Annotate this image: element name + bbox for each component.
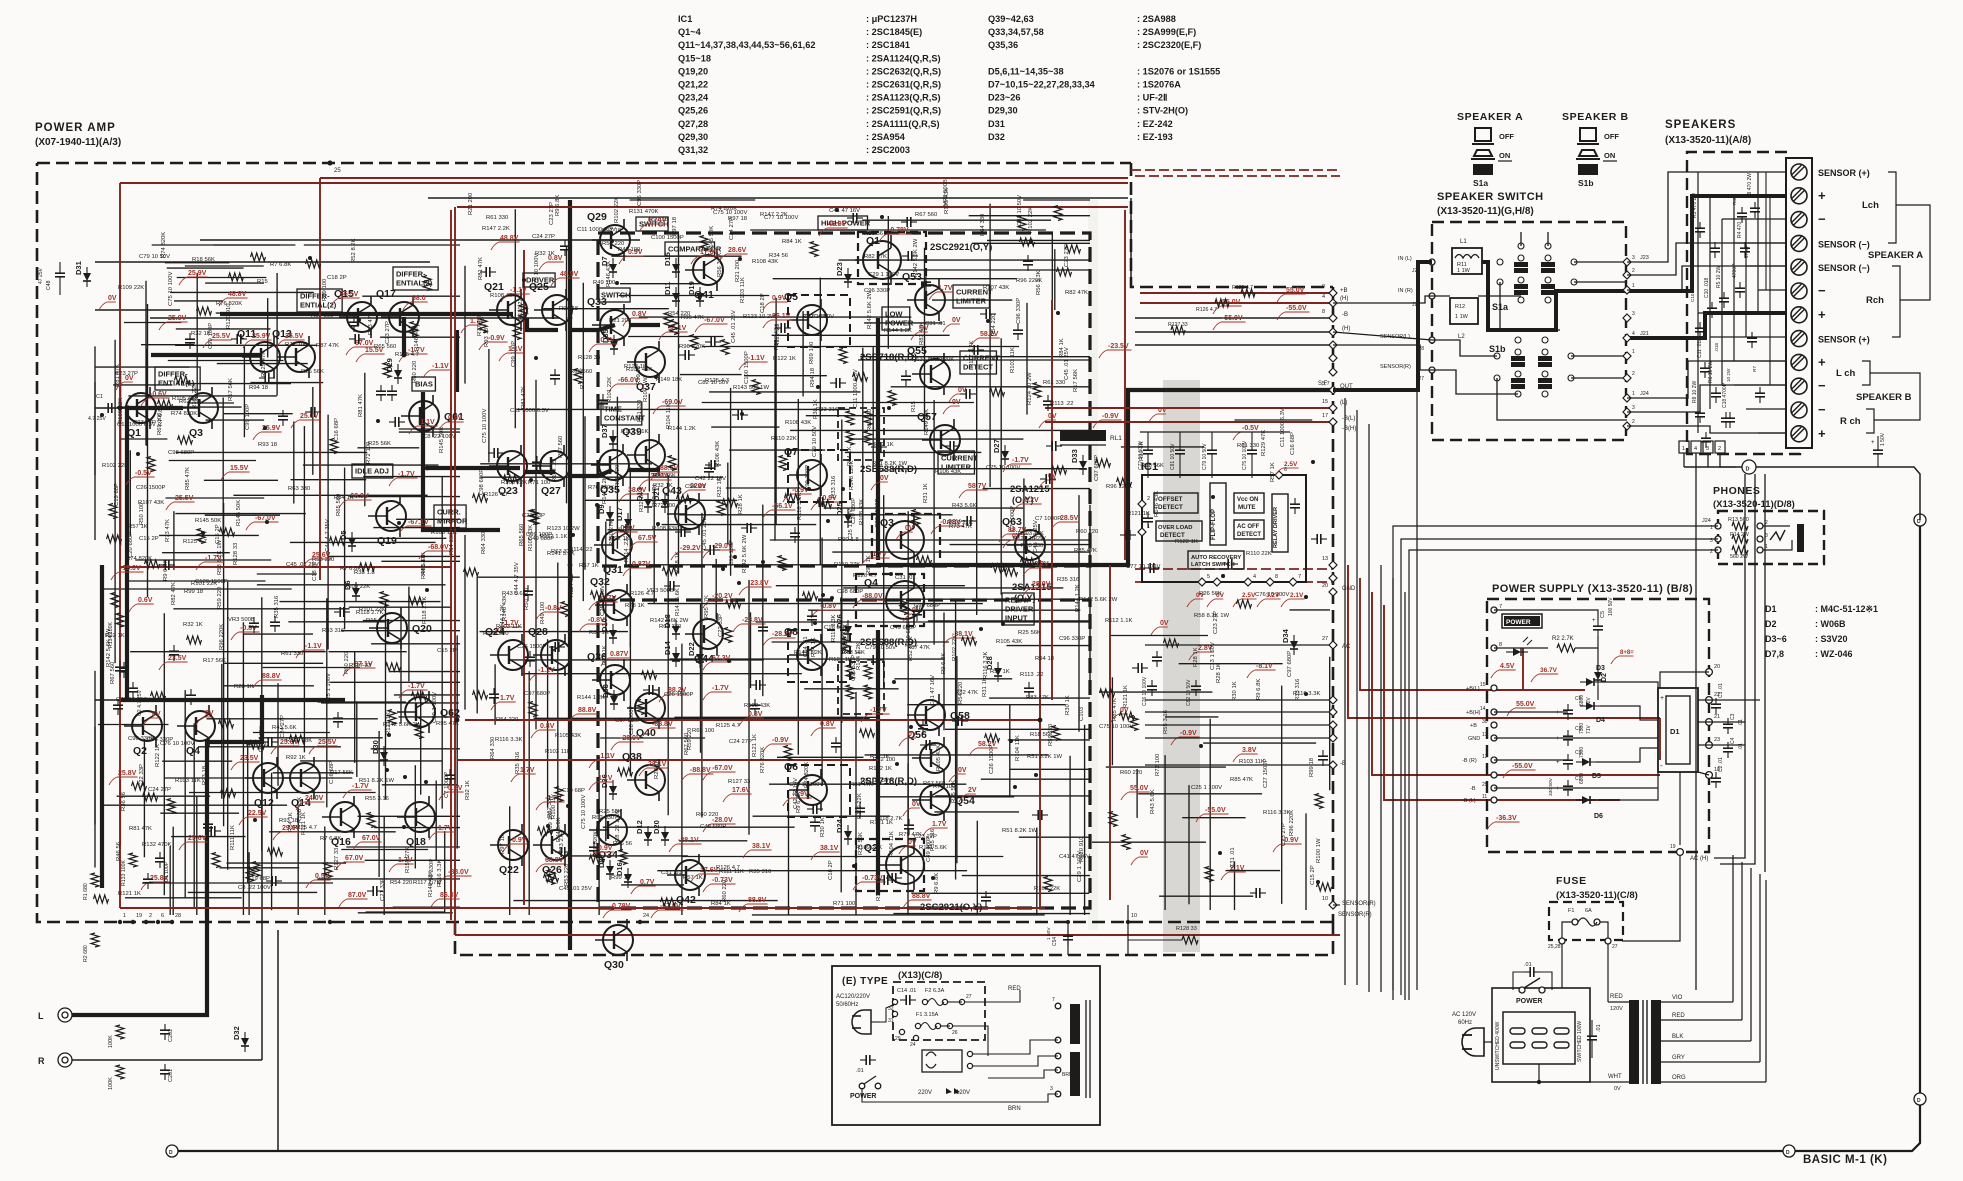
- svg-text:R110 22K: R110 22K: [771, 436, 797, 442]
- svg-text:R60 220: R60 220: [1076, 529, 1099, 535]
- svg-text:R150 27K: R150 27K: [405, 847, 411, 873]
- svg-text:R57 1K: R57 1K: [579, 563, 599, 569]
- resistor R2 2.7K: [1557, 644, 1575, 652]
- svg-text:25.0V: 25.0V: [300, 413, 319, 420]
- svg-text:60Hz: 60Hz: [1458, 1020, 1472, 1026]
- capacitor: [589, 846, 599, 848]
- svg-text:220V: 220V: [918, 1090, 932, 1096]
- svg-text:Q54: Q54: [955, 795, 975, 807]
- svg-text:R28 1K: R28 1K: [234, 684, 254, 690]
- svg-text:17.6V: 17.6V: [732, 787, 751, 794]
- wire: [271, 773, 273, 910]
- svg-text:R114 .22: R114 .22: [569, 574, 575, 597]
- svg-text:R43 5.6K: R43 5.6K: [1150, 789, 1156, 814]
- diode D28: [985, 656, 1002, 682]
- svg-text:-88.0V: -88.0V: [862, 593, 883, 600]
- svg-text:68.0: 68.0: [412, 295, 426, 302]
- bus wire: [1392, 578, 1394, 1000]
- svg-text:+: +: [1818, 426, 1826, 441]
- svg-text:15.5V: 15.5V: [230, 465, 249, 472]
- svg-text:R83 47K: R83 47K: [652, 484, 658, 507]
- svg-text:R12: R12: [1455, 304, 1465, 310]
- contact terminal: [1515, 337, 1521, 343]
- svg-text:24: 24: [910, 1042, 916, 1048]
- svg-text:48.8V: 48.8V: [228, 291, 247, 298]
- junction: [387, 733, 391, 737]
- wire: [1135, 331, 1333, 333]
- driver Q6 dashed box: [788, 765, 850, 817]
- wire: [1106, 766, 1226, 768]
- svg-text:R144 1.2K: R144 1.2K: [577, 695, 605, 701]
- resistor: [412, 692, 427, 700]
- wire: [303, 426, 305, 752]
- resistor: [664, 313, 672, 328]
- capacitor: [1037, 810, 1039, 820]
- wire: [1036, 828, 1038, 916]
- capacitor: [750, 704, 760, 706]
- svg-text:C24 27P: C24 27P: [280, 715, 286, 738]
- wire: [862, 348, 864, 564]
- resistor: [723, 499, 738, 507]
- wire: [317, 878, 460, 880]
- speaker net R9: [1750, 207, 1760, 209]
- svg-text:0.87V: 0.87V: [610, 651, 629, 658]
- svg-text:R112 1.1K: R112 1.1K: [540, 534, 567, 540]
- resistor: [1164, 639, 1179, 647]
- svg-text:10: 10: [1131, 913, 1137, 919]
- wire: [114, 340, 116, 663]
- svg-text:UNSWITCHED 400W: UNSWITCHED 400W: [1495, 1021, 1501, 1070]
- svg-text:-B(L): -B(L): [1342, 416, 1355, 422]
- emitter resistors dashed box lower: [838, 662, 884, 714]
- capacitor: [957, 716, 959, 726]
- wire sensor R run: [1333, 904, 1340, 906]
- capacitor: [872, 655, 874, 665]
- svg-text:+: +: [1592, 618, 1596, 624]
- svg-text:C45 .01 25V: C45 .01 25V: [702, 517, 708, 550]
- resistor: [410, 322, 418, 337]
- svg-text:R150 27K: R150 27K: [609, 520, 615, 546]
- resistor: [803, 592, 818, 600]
- svg-text:Q21,22: Q21,22: [678, 80, 708, 90]
- svg-text:SPEAKER A: SPEAKER A: [1868, 250, 1923, 261]
- capacitor: [1023, 260, 1033, 262]
- svg-text:SWITCH: SWITCH: [601, 291, 631, 300]
- svg-text:-28.0V: -28.0V: [620, 735, 641, 742]
- wire: [396, 518, 460, 520]
- resistor: [252, 862, 260, 877]
- svg-text:-23.8V: -23.8V: [742, 617, 763, 624]
- wire: [358, 447, 420, 449]
- wire: [1000, 338, 1002, 595]
- wire: [872, 347, 874, 466]
- speaker net R4: [1740, 247, 1750, 249]
- svg-text:C16 68P: C16 68P: [1290, 432, 1296, 455]
- diode D6: [343, 580, 360, 602]
- svg-text:R84 1K: R84 1K: [1059, 338, 1065, 358]
- wire: [535, 380, 537, 730]
- svg-text:R69 100: R69 100: [322, 278, 328, 301]
- wire: [130, 651, 326, 653]
- capacitor: [560, 847, 562, 857]
- svg-text:TIME: TIME: [604, 405, 622, 414]
- wire: [891, 386, 1090, 388]
- (E) TYPE outer box: [832, 966, 1100, 1125]
- svg-text:R127 33: R127 33: [728, 779, 751, 785]
- wire: [1130, 198, 1132, 287]
- wire: [508, 659, 764, 661]
- svg-text:C96 330P: C96 330P: [1016, 298, 1022, 324]
- IC1 pin 5: [1198, 578, 1206, 586]
- svg-text:-28.2V: -28.2V: [772, 631, 793, 638]
- diode D5 ps: [1576, 758, 1596, 766]
- capacitor: [965, 389, 967, 399]
- resistor: [1066, 245, 1081, 253]
- red wire: [1135, 568, 1333, 570]
- svg-text:R109 22K: R109 22K: [501, 480, 527, 486]
- transistor Q35: [591, 444, 629, 496]
- transformer riser wire: [1732, 855, 1734, 1002]
- junction: [136, 452, 140, 456]
- wire: [223, 503, 225, 826]
- transistor Q32: [590, 576, 633, 626]
- svg-text:POWER AMP: POWER AMP: [35, 122, 116, 134]
- wire: [207, 718, 378, 720]
- resistor: [700, 236, 708, 251]
- switch legend SPEAKER B: [1562, 111, 1629, 188]
- capacitor C2 4.7 25V: [128, 687, 138, 689]
- svg-text:FUSE: FUSE: [1556, 875, 1587, 887]
- svg-text:R81 47K: R81 47K: [358, 394, 364, 417]
- svg-text:R102 22K: R102 22K: [1028, 207, 1034, 233]
- svg-text:C23 27P: C23 27P: [115, 371, 138, 377]
- svg-text:46.9V: 46.9V: [828, 221, 847, 228]
- svg-text:Q2: Q2: [133, 745, 147, 757]
- wire amp bottom riser 1: [1067, 922, 1069, 955]
- diode D38: [601, 684, 618, 710]
- wire: [726, 487, 800, 489]
- svg-text:-1.7V: -1.7V: [870, 551, 887, 558]
- transistor Q17: [376, 288, 419, 338]
- resistor: [817, 500, 832, 508]
- connector pin 4: [1329, 299, 1337, 307]
- svg-text:28.0V: 28.0V: [1032, 581, 1051, 588]
- svg-text:+: +: [1818, 354, 1826, 369]
- wire: [312, 387, 314, 475]
- svg-text:30: 30: [1482, 719, 1488, 725]
- fuse F1 6A: [1562, 908, 1608, 941]
- wire D left join: [1684, 466, 1742, 468]
- svg-text:-1.1V: -1.1V: [598, 753, 615, 760]
- svg-text:+B(H): +B(H): [1466, 710, 1481, 716]
- svg-text:-0.2V: -0.2V: [1022, 497, 1039, 504]
- svg-text:25.5V: 25.5V: [318, 739, 337, 746]
- speaker net C18: [1725, 417, 1735, 419]
- scan shading stripe 2: [1088, 200, 1098, 930]
- transistor Q36: [587, 651, 630, 701]
- resistor: [529, 702, 537, 717]
- transformer core: [1642, 1000, 1644, 1084]
- svg-text:67.0V: 67.0V: [362, 835, 381, 842]
- wire: [378, 731, 380, 877]
- svg-text:R108 43K: R108 43K: [490, 293, 516, 299]
- wire: [267, 298, 269, 357]
- svg-text:13: 13: [1322, 556, 1328, 562]
- wire: [324, 827, 326, 916]
- resistor: [519, 305, 527, 320]
- svg-text:R126 4.7: R126 4.7: [484, 492, 508, 498]
- wire: [1281, 686, 1283, 904]
- svg-text:0V: 0V: [952, 399, 961, 406]
- transistor Q37: [627, 341, 665, 393]
- Lch bracket B: [1862, 361, 1878, 373]
- bus wire: [1344, 398, 1346, 985]
- capacitor: [550, 374, 560, 376]
- power unit inner box: [1503, 1012, 1575, 1064]
- bus bends bottom: [1345, 984, 1492, 986]
- svg-text:R121 1K: R121 1K: [118, 891, 141, 897]
- svg-text:1 50V: 1 50V: [1880, 432, 1886, 446]
- speaker box pin 4: [1715, 441, 1725, 453]
- capacitor: [907, 251, 909, 261]
- svg-text:Rch: Rch: [1866, 295, 1884, 306]
- svg-text:C11 .018: C11 .018: [1697, 338, 1703, 358]
- svg-text:C18 2P: C18 2P: [312, 561, 318, 581]
- resistor: [1033, 383, 1041, 398]
- resistor: [464, 568, 479, 576]
- transistor Q38: [622, 751, 665, 801]
- svg-text:D30: D30: [371, 740, 380, 754]
- speakers internal wires: [1698, 172, 1786, 433]
- wire: [821, 538, 823, 786]
- capacitor: [949, 441, 951, 451]
- svg-text:Q39~42,63: Q39~42,63: [988, 14, 1034, 24]
- resistor: [642, 671, 657, 679]
- svg-text:Q19: Q19: [377, 535, 397, 547]
- svg-text:19: 19: [136, 913, 142, 919]
- resistor: [538, 827, 553, 835]
- junction: [263, 426, 267, 430]
- inductor L1: [1452, 239, 1482, 274]
- svg-text:OFF: OFF: [1499, 132, 1514, 141]
- resistor R2 680: [91, 933, 99, 947]
- svg-text:+: +: [1556, 786, 1560, 792]
- svg-text:0.5V: 0.5V: [315, 873, 330, 880]
- svg-text:C76 10 100V: C76 10 100V: [160, 741, 194, 747]
- capacitor: [271, 876, 273, 886]
- wire: [159, 534, 259, 536]
- svg-text:RED: RED: [1672, 1013, 1685, 1019]
- capacitor: [372, 886, 374, 896]
- bus wire: [1356, 410, 1358, 985]
- junction D left: [166, 1145, 178, 1157]
- (E) pin 24: [913, 1035, 918, 1040]
- svg-text:VIO: VIO: [1672, 995, 1683, 1001]
- relay contact S1a-2: [1541, 255, 1555, 295]
- resistor: [1100, 689, 1115, 697]
- svg-text:R116 3.3K: R116 3.3K: [1263, 810, 1290, 816]
- resistor: [330, 439, 338, 454]
- wire: [101, 588, 292, 590]
- capacitor: [883, 875, 885, 885]
- svg-text:R ch: R ch: [1840, 416, 1861, 427]
- diode D22: [687, 642, 704, 668]
- svg-text:R6 10 2W: R6 10 2W: [1708, 360, 1714, 383]
- svg-text:D31: D31: [988, 119, 1005, 129]
- svg-text:+: +: [1556, 760, 1560, 766]
- resistor: [145, 560, 160, 568]
- capacitor: [966, 516, 968, 526]
- power resistor .22 5W: [846, 685, 854, 699]
- svg-text:R61 330: R61 330: [281, 651, 304, 657]
- wire: [648, 394, 650, 492]
- svg-text:DETECT: DETECT: [1158, 504, 1183, 511]
- transistor Q20: [369, 607, 432, 649]
- wire: [648, 603, 983, 605]
- svg-text:C79 10 50V: C79 10 50V: [812, 426, 818, 457]
- red wire: [1494, 689, 1585, 691]
- svg-text:D1: D1: [1670, 727, 1680, 736]
- svg-text:-B(H): -B(H): [1342, 426, 1356, 432]
- capacitor: [810, 821, 820, 823]
- speaker switch wiring: [1432, 232, 1627, 420]
- wire: [214, 244, 280, 246]
- thick wire left riser: [100, 565, 104, 888]
- wire: [715, 559, 717, 619]
- svg-text:C19 68P: C19 68P: [114, 483, 120, 506]
- wire: [711, 426, 779, 428]
- svg-text:-0.9V: -0.9V: [772, 737, 789, 744]
- svg-text:R116 3.3K: R116 3.3K: [983, 652, 989, 679]
- junction: [385, 768, 389, 772]
- wire: [972, 242, 1090, 244]
- diode D11: [663, 282, 680, 307]
- resistor: [147, 457, 155, 472]
- svg-text:0V: 0V: [1158, 407, 1167, 414]
- red wire: [1045, 421, 1333, 423]
- svg-text:C26 1500P: C26 1500P: [517, 644, 547, 650]
- svg-text:R144 1.2K: R144 1.2K: [884, 328, 912, 334]
- svg-text:DRIVER: DRIVER: [1005, 605, 1034, 614]
- wire: [160, 812, 239, 814]
- svg-text:71V: 71V: [1586, 724, 1592, 734]
- transistor Q56: [907, 729, 950, 779]
- wire: [65, 1059, 262, 1061]
- wire: [227, 582, 229, 870]
- svg-text:-67.0V: -67.0V: [704, 317, 725, 324]
- svg-text:3: 3: [1632, 405, 1635, 411]
- svg-text:R105 43K: R105 43K: [996, 639, 1022, 645]
- svg-text:AC: AC: [1342, 644, 1351, 650]
- svg-text:LOW: LOW: [885, 310, 903, 319]
- svg-text:D: D: [169, 1150, 173, 1156]
- svg-text:(H): (H): [1340, 296, 1348, 302]
- junction: [425, 588, 429, 592]
- (E) pin 31: [892, 1011, 897, 1016]
- resistor: [409, 597, 424, 605]
- svg-text:R141 5.6K: R141 5.6K: [919, 845, 947, 851]
- svg-text:VR3 500B: VR3 500B: [228, 617, 255, 623]
- (E) transformer pins: [1050, 997, 1073, 1097]
- capacitor: [918, 724, 928, 726]
- junction: [656, 522, 660, 526]
- svg-text:23.5V: 23.5V: [168, 655, 187, 662]
- (E) pin 26: [947, 1023, 952, 1028]
- svg-text:-0.8V: -0.8V: [820, 603, 837, 610]
- diode D17: [615, 507, 632, 533]
- resistor: [839, 349, 847, 364]
- capacitor: [598, 399, 608, 401]
- svg-text:R144 1.2K: R144 1.2K: [668, 426, 696, 432]
- svg-text:R109 22K: R109 22K: [344, 584, 370, 590]
- wire: [750, 612, 752, 688]
- bottom bus corner: [1789, 520, 1920, 1151]
- svg-text:67.0V: 67.0V: [345, 855, 364, 862]
- svg-text:IN (L): IN (L): [1398, 256, 1412, 262]
- svg-text:WHT: WHT: [1608, 1074, 1622, 1080]
- transistor Q18: [397, 796, 435, 848]
- capacitor: [812, 804, 814, 814]
- svg-text:R7 6.8K: R7 6.8K: [320, 836, 341, 842]
- svg-text:R7 6.8K: R7 6.8K: [270, 262, 291, 268]
- svg-text:R133 100K: R133 100K: [121, 860, 127, 886]
- svg-text:R149 18K: R149 18K: [924, 409, 930, 435]
- svg-text:R60 220: R60 220: [722, 879, 728, 902]
- thick wire: [878, 563, 1128, 567]
- resistor: [784, 746, 792, 761]
- resistor: [250, 741, 265, 749]
- diode D33: [1070, 449, 1087, 475]
- junction: [1311, 460, 1315, 464]
- IC1 pin 6: [1275, 471, 1283, 479]
- resistor: [229, 273, 244, 281]
- wire: [257, 573, 317, 575]
- svg-text:S,F: S,F: [1318, 381, 1328, 387]
- wire: [621, 884, 684, 886]
- connector pin x: [1329, 721, 1337, 729]
- svg-text:R: R: [38, 1056, 45, 1066]
- svg-text:PHONES: PHONES: [1713, 485, 1760, 497]
- diode D27: [992, 439, 1009, 465]
- wire: [128, 395, 276, 397]
- svg-text:Q62: Q62: [440, 707, 460, 719]
- svg-text:INPUT: INPUT: [1005, 614, 1028, 623]
- transformer riser wire: [1765, 880, 1767, 1082]
- transistor Q39: [622, 426, 665, 476]
- svg-text:2SC2921(O,Y): 2SC2921(O,Y): [930, 242, 992, 253]
- svg-text:-20.2V: -20.2V: [712, 593, 733, 600]
- wire: [962, 875, 1090, 877]
- svg-text:C31 .01: C31 .01: [1230, 847, 1236, 868]
- resistor: [111, 593, 119, 608]
- svg-text:C79 10 50V: C79 10 50V: [1202, 443, 1208, 470]
- phones wires: [1393, 526, 1718, 1000]
- capacitor: [835, 378, 837, 388]
- svg-text:Q22: Q22: [499, 864, 519, 876]
- wire: [585, 499, 738, 501]
- svg-text:R84 1K: R84 1K: [288, 812, 294, 832]
- junction: [816, 385, 820, 389]
- resistor R126 4.7: [1215, 299, 1229, 307]
- svg-text:C31 .01: C31 .01: [925, 321, 946, 327]
- relay contact S1a-1: [1514, 255, 1528, 295]
- svg-text:-23.5V: -23.5V: [1108, 343, 1129, 350]
- wire: [774, 340, 776, 541]
- junction: [1013, 785, 1017, 789]
- wire: [366, 911, 445, 913]
- svg-text:C49 680P: C49 680P: [926, 836, 932, 862]
- svg-text:R116 3.3K: R116 3.3K: [797, 493, 803, 520]
